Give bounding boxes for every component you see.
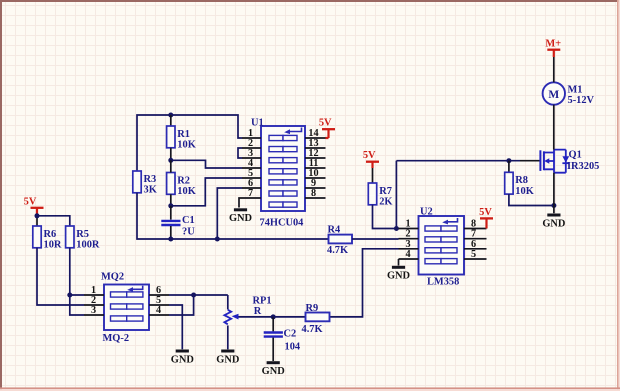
capacitor C1 ?U [161, 206, 195, 239]
ground at C2 [262, 363, 285, 377]
op-amp U1 74HCU04 body [251, 118, 305, 229]
wire: R2 top stub [170, 160, 172, 172]
svg-text:4.7K: 4.7K [302, 324, 323, 335]
svg-text:MQ-2: MQ-2 [103, 333, 130, 344]
svg-text:4: 4 [156, 305, 161, 316]
wire: U2 pin4 to ground [398, 259, 400, 266]
svg-text:10R: 10R [44, 240, 62, 251]
svg-text:GND: GND [387, 271, 410, 282]
resistor R3 3K [133, 171, 157, 196]
svg-text:U1: U1 [251, 118, 264, 129]
wire: 5V to R7 top [371, 162, 373, 168]
svg-text:GND: GND [216, 354, 239, 365]
node: R2/C1 junction [168, 203, 173, 208]
potentiometer RP1 R [224, 295, 273, 349]
svg-text:LM358: LM358 [427, 276, 459, 287]
ground at Q1 source [542, 215, 565, 229]
svg-text:IR3205: IR3205 [567, 161, 599, 172]
resistor R7 2K [368, 183, 392, 208]
resistor R6 10R [33, 226, 62, 251]
svg-text:5: 5 [471, 249, 476, 260]
wire: 5V rail top-left from R3 top to U1 pin1 [137, 115, 242, 171]
wire: R8 top stub [508, 161, 510, 173]
svg-text:5-12V: 5-12V [568, 95, 595, 106]
svg-text:R5: R5 [76, 229, 89, 240]
wire: junction to R9 [273, 316, 305, 318]
svg-text:8: 8 [311, 188, 316, 199]
wire: R3 bottom to GND bus [137, 193, 329, 239]
wire: MQ2 pin6 to RP1 [169, 294, 228, 296]
svg-text:R8: R8 [515, 175, 528, 186]
wire: R1 top stub [170, 115, 172, 126]
svg-text:5V: 5V [479, 207, 492, 218]
wire: vertical from gate line to U2 pin1 [395, 161, 397, 229]
wire: node to R5 top [37, 216, 70, 226]
svg-text:2K: 2K [379, 197, 392, 208]
svg-text:C2: C2 [284, 329, 297, 340]
MQ2 right pins 6-4 [149, 285, 169, 316]
wire: Q1 source to ground [553, 173, 555, 214]
wire: R4 to U2 pin2 [352, 238, 399, 240]
U2 left pins 1-4 [399, 219, 419, 261]
node: Q1 source junction [551, 203, 556, 208]
svg-text:5V: 5V [363, 150, 376, 161]
svg-text:GND: GND [229, 213, 252, 224]
svg-text:104: 104 [285, 342, 301, 353]
svg-text:3K: 3K [144, 185, 157, 196]
wire: U1 pins 2-3 shorting loop [238, 148, 242, 158]
svg-text:R1: R1 [177, 129, 190, 140]
wire: U1 pin7 to ground [239, 198, 242, 208]
wire: motor to Q1 drain [553, 105, 555, 150]
svg-text:10K: 10K [177, 186, 195, 197]
svg-text:4: 4 [405, 249, 410, 260]
wire: branch down to MQ2 pin4 [169, 295, 194, 315]
node: 5V split R5/R6 [35, 213, 40, 218]
ground at MQ2 pin5 [171, 351, 194, 365]
svg-text:5V: 5V [319, 118, 332, 129]
resistor R1 10K [167, 126, 196, 151]
svg-text:?U: ?U [182, 227, 195, 238]
wire: MQ2 pin5 to ground [169, 305, 182, 349]
svg-text:R: R [254, 306, 262, 317]
svg-text:GND: GND [171, 354, 194, 365]
node: wiper/C2/R9 junction [271, 314, 276, 319]
svg-text:4.7K: 4.7K [327, 245, 348, 256]
5V power at U2 pin8 [485, 219, 487, 229]
5V symbol U1 pin14 [319, 118, 335, 130]
svg-text:10K: 10K [177, 140, 195, 151]
svg-text:MQ2: MQ2 [101, 272, 124, 283]
U2 right pins 8-5 [464, 219, 487, 261]
resistor R4 4.7K horizontal [327, 224, 352, 255]
svg-text:M1: M1 [568, 84, 583, 95]
node: R8 tap on gate line [506, 158, 511, 163]
wire: R8 bottom to Q1 source [509, 194, 554, 205]
svg-text:R6: R6 [44, 229, 57, 240]
5V power at U1 pin14 [326, 130, 329, 139]
svg-text:10K: 10K [515, 186, 533, 197]
junction node R1 top on rail [168, 113, 173, 118]
svg-text:R9: R9 [306, 303, 319, 314]
ground at U2 pin4 [387, 267, 410, 281]
M+ power symbol [545, 38, 561, 49]
svg-text:R3: R3 [144, 174, 157, 185]
svg-text:U2: U2 [420, 206, 433, 217]
node: R5/pin1/pin3 junction [67, 293, 72, 298]
svg-text:3: 3 [91, 305, 96, 316]
svg-text:Q1: Q1 [569, 149, 582, 160]
svg-text:R7: R7 [379, 186, 392, 197]
5V symbol U2 pin8 [479, 207, 493, 219]
wire: U1 pin6 down to bus [217, 188, 242, 239]
node: C1 bottom on bus [168, 237, 173, 242]
transistor Q1 IR3205 MOSFET [540, 149, 599, 172]
svg-text:R4: R4 [328, 224, 341, 235]
node: R1/R2 junction [168, 158, 173, 163]
capacitor C2 104 [264, 317, 300, 361]
svg-text:M+: M+ [545, 38, 561, 49]
resistor R9 4.7K horizontal [302, 303, 330, 335]
svg-text:M: M [548, 89, 559, 101]
sensor MQ2 body [101, 272, 149, 344]
resistor R2 10K [167, 173, 196, 198]
U1 right pins 14-8 [305, 128, 326, 199]
MQ2 left pins 1-3 [84, 285, 104, 316]
svg-text:5V: 5V [24, 197, 37, 208]
motor M1 5-12V [543, 82, 595, 106]
wire: R5 bottom to MQ2 pin1 [70, 248, 84, 295]
wire: Q1 gate stub [520, 160, 540, 162]
resistor R5 100R [66, 226, 100, 251]
node: pin6/pin4 branch [191, 293, 196, 298]
U1 left pins 1-7 [242, 128, 261, 199]
5V power bottom-left [24, 197, 44, 208]
node: U2 pin1 / gate branch [394, 226, 399, 231]
wire: gate line from U2 node to Q1 [396, 160, 520, 162]
wire: R7 bottom to U2 pin1 [373, 205, 399, 229]
ground at U1 pin7 [229, 210, 252, 224]
node: pin6 branch on bus [215, 237, 220, 242]
5V symbol at R7 [363, 150, 379, 162]
svg-text:C1: C1 [182, 215, 195, 226]
ground at RP1 [216, 351, 239, 365]
svg-text:100R: 100R [76, 240, 100, 251]
wire: junction to U1 pin4 [171, 160, 242, 168]
wire: R2 bottom node to U1 pin5 [171, 178, 242, 206]
wire: R2 bottom stub to node [170, 194, 172, 206]
svg-text:R2: R2 [177, 175, 190, 186]
op-amp U2 LM358 body [419, 206, 465, 287]
wire: junction down to MQ2 pin3 [70, 295, 84, 315]
resistor R8 10K [505, 172, 534, 197]
wire: R6 bottom to MQ2 pin2 [37, 248, 84, 305]
wire: M+ to motor top [553, 57, 555, 82]
svg-text:74HCU04: 74HCU04 [260, 218, 304, 229]
svg-text:7: 7 [248, 188, 253, 199]
wire: R1 bottom to junction [170, 148, 172, 161]
wire: 5V down to node [36, 208, 38, 214]
wire: U2 pin3 down to R9 [330, 249, 399, 317]
svg-text:GND: GND [542, 218, 565, 229]
svg-text:GND: GND [262, 366, 285, 377]
